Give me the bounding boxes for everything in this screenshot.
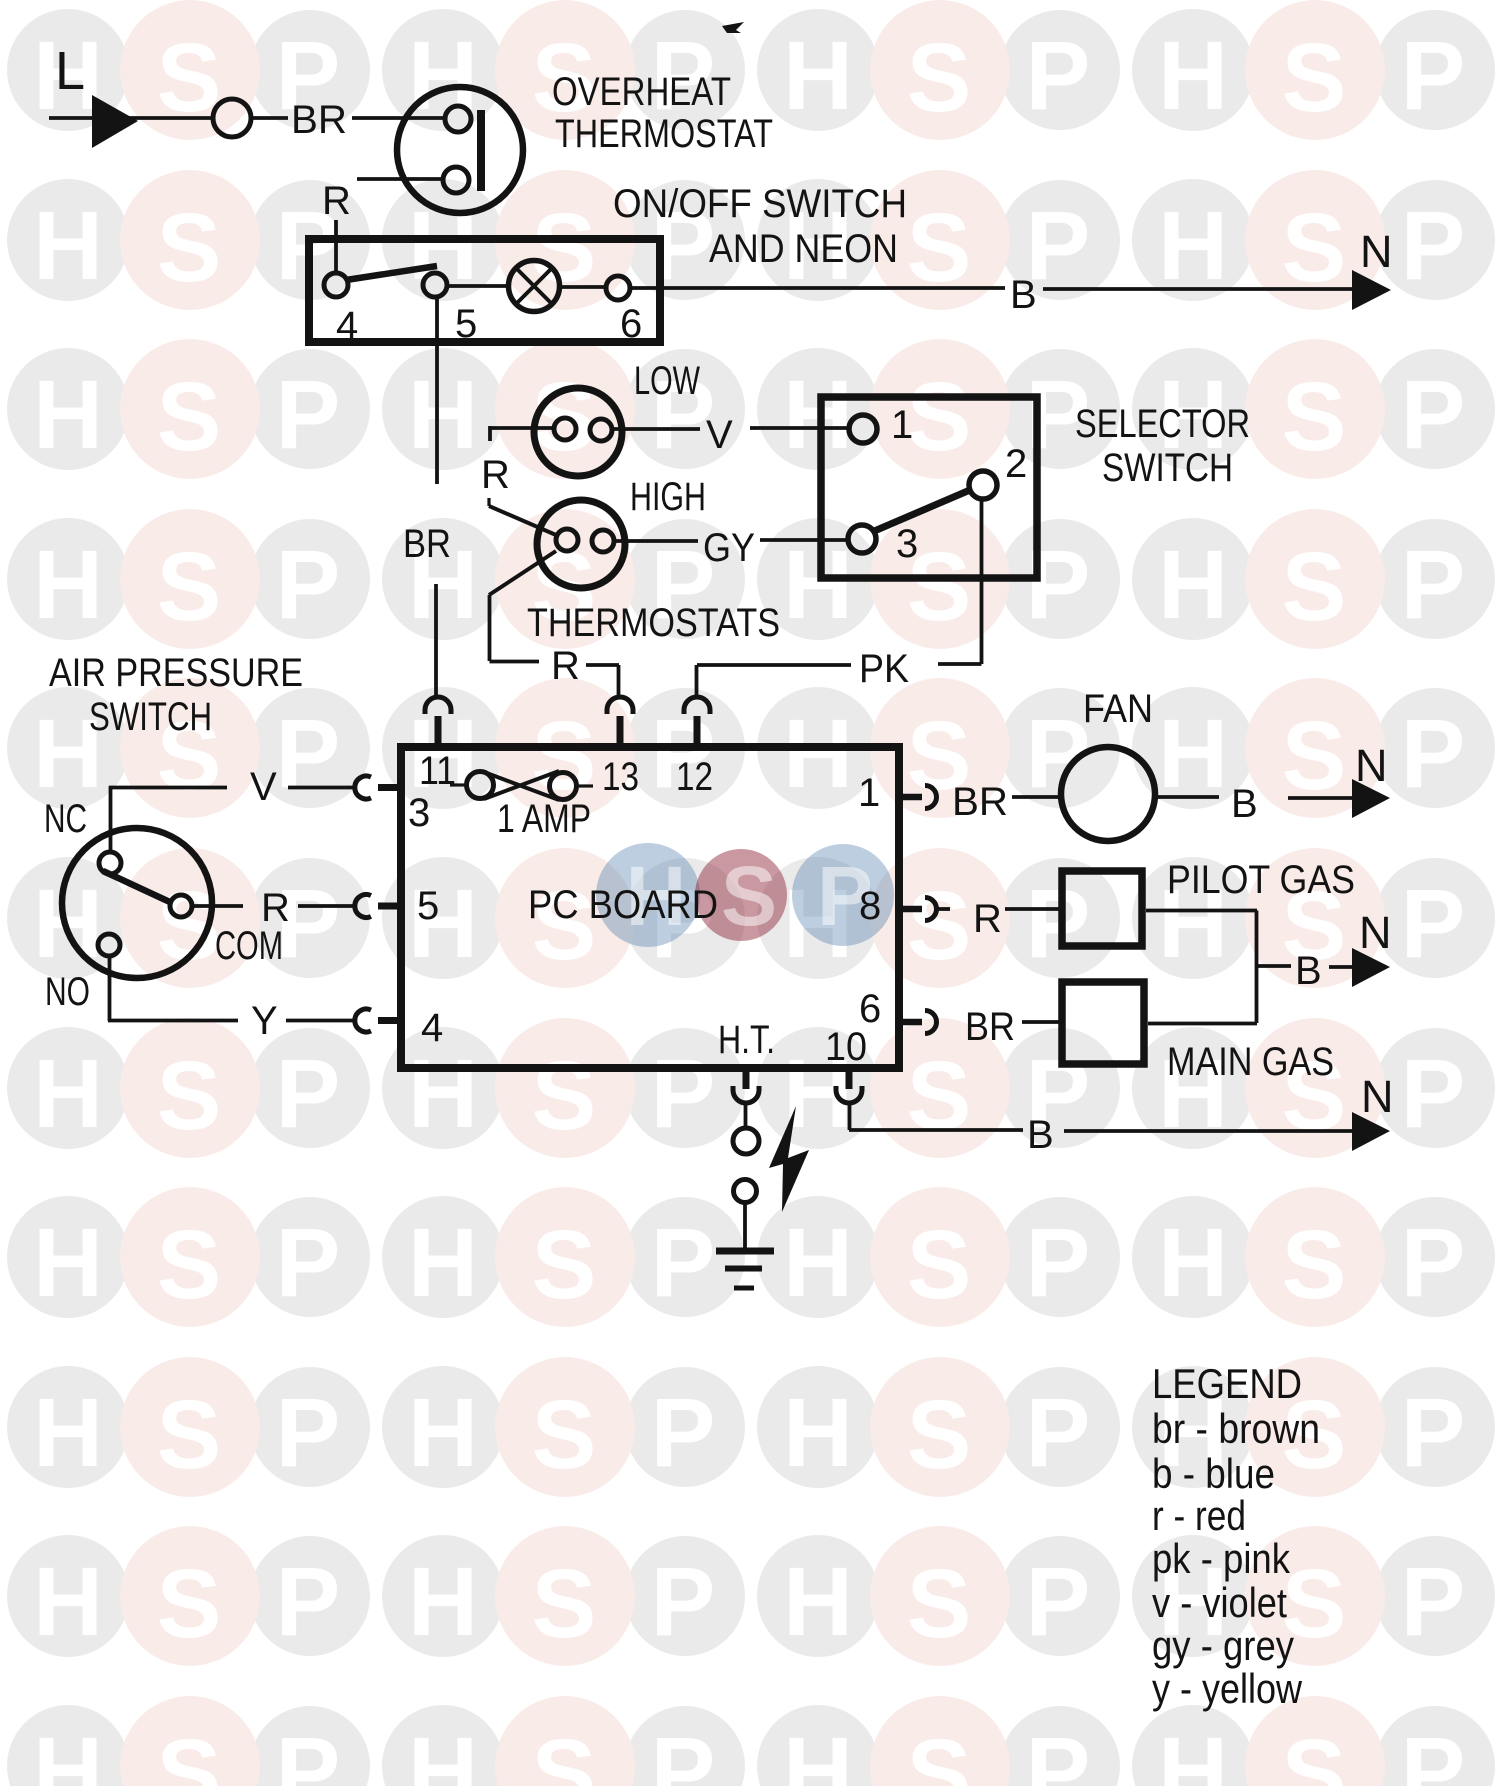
node L (mains live) <box>55 41 85 101</box>
thermostat LOW body <box>534 388 622 476</box>
legend y - yellow <box>1152 1665 1303 1712</box>
legend pk - pink <box>1152 1535 1291 1582</box>
wire fan to B label <box>1156 795 1219 799</box>
switch terminal 5 <box>423 273 477 346</box>
label B (blue gas) <box>1295 949 1322 993</box>
connector terminal 1 output <box>900 786 937 809</box>
selector lever 3-2 <box>872 490 970 532</box>
label V (violet wire) <box>706 413 733 457</box>
label NO <box>45 970 90 1014</box>
label NC <box>44 797 87 841</box>
selector terminal 3 <box>848 522 918 566</box>
wire circle to BR label <box>251 116 288 120</box>
svg-text:4: 4 <box>336 304 358 348</box>
ground symbol <box>716 1251 774 1288</box>
on/off switch box <box>309 239 660 342</box>
spark lightning symbol <box>769 1106 809 1212</box>
wire NO down to Y line <box>108 956 112 1021</box>
wire COM to R label <box>193 904 243 908</box>
svg-text:R: R <box>322 179 351 223</box>
wire BR terminal 5 down (upper) <box>435 298 439 484</box>
label B (blue from fan) <box>1231 782 1258 826</box>
wire B to N arrow (fan) <box>1288 796 1352 800</box>
svg-text:GY: GY <box>703 526 755 570</box>
air pressure switch pin NO <box>98 934 120 956</box>
wire pilot valve to junction <box>1146 911 1257 1024</box>
svg-text:1 AMP: 1 AMP <box>497 797 591 841</box>
pin label 11 <box>419 749 456 793</box>
wire R continues <box>298 904 357 908</box>
label Y (yellow wire) <box>251 999 278 1043</box>
svg-text:2: 2 <box>1005 442 1027 486</box>
label SELECTOR SWITCH <box>1075 402 1250 490</box>
label OVERHEAT THERMOSTAT <box>552 70 773 156</box>
svg-text:B: B <box>1010 273 1037 317</box>
label HIGH <box>630 475 706 519</box>
pin label 8 <box>859 884 881 928</box>
svg-text:PK: PK <box>859 647 909 691</box>
label GY (grey wire) <box>703 526 755 570</box>
connector terminal 6 output <box>900 1011 937 1034</box>
svg-text:4: 4 <box>421 1006 443 1050</box>
svg-text:LEGEND: LEGEND <box>1152 1360 1302 1407</box>
label H.T. <box>718 1018 775 1062</box>
svg-text:gy - grey: gy - grey <box>1152 1622 1294 1669</box>
pin label 12 <box>676 755 713 799</box>
svg-text:3: 3 <box>408 791 430 835</box>
overheat thermostat pin top <box>445 106 471 132</box>
svg-text:Y: Y <box>251 999 278 1043</box>
connector C terminal 3 <box>355 776 400 799</box>
pilot gas valve <box>1062 871 1142 946</box>
label PILOT GAS <box>1167 858 1355 902</box>
svg-text:12: 12 <box>676 755 713 799</box>
label R (red wire to overheat) <box>322 179 351 223</box>
label BR (brown wire) <box>291 98 347 142</box>
label MAIN GAS <box>1167 1040 1334 1084</box>
label PK (pink wire) <box>859 647 909 691</box>
wire R to overheat bottom pin <box>357 177 443 181</box>
switch lever 4-5 <box>346 266 437 280</box>
wire BR down to board terminal 11 <box>434 584 438 699</box>
wire B to N arrow <box>1043 287 1352 291</box>
air pressure switch pin COM <box>170 895 192 917</box>
wire main valve to junction <box>1148 1022 1257 1026</box>
svg-text:N: N <box>1360 226 1393 277</box>
svg-text:v - violet: v - violet <box>1152 1579 1287 1626</box>
label PC BOARD <box>528 883 718 927</box>
arrow N bottom <box>1352 1112 1390 1151</box>
svg-text:V: V <box>250 765 277 809</box>
overheat thermostat body <box>397 87 523 213</box>
svg-text:NC: NC <box>44 797 87 841</box>
thermostat LOW pin right <box>590 419 612 441</box>
svg-text:THERMOSTAT: THERMOSTAT <box>555 112 773 156</box>
node N (bottom) <box>1361 1071 1394 1122</box>
wire PK selector 2 down <box>938 499 982 664</box>
air pressure switch pin NC <box>99 852 121 874</box>
wire V to selector terminal 1 <box>750 426 849 430</box>
svg-text:6: 6 <box>620 302 642 346</box>
thermostat HIGH body <box>537 500 625 588</box>
svg-text:pk - pink: pk - pink <box>1152 1535 1291 1582</box>
pin label 10 <box>825 1025 867 1069</box>
node N (gas) <box>1359 907 1392 958</box>
connector hook terminal H.T. <box>733 1068 759 1103</box>
fan motor M1 <box>1061 747 1155 841</box>
label R (red to board 5) <box>261 886 290 930</box>
switch terminal 4 <box>324 273 358 348</box>
label BR (brown wire mid) <box>403 522 451 566</box>
svg-text:LOW: LOW <box>634 359 700 403</box>
overheat thermostat contact bar <box>477 110 485 191</box>
svg-text:HIGH: HIGH <box>630 475 706 519</box>
svg-text:B: B <box>1295 949 1322 993</box>
svg-text:S: S <box>721 849 777 943</box>
wire neon to terminal 6 <box>559 285 606 289</box>
overheat thermostat pin bottom <box>443 167 469 193</box>
wire V continues <box>288 786 357 790</box>
wire R to HIGH left pin <box>489 498 556 535</box>
svg-text:SWITCH: SWITCH <box>1102 446 1233 490</box>
pin label 1 <box>858 771 880 815</box>
label AIR PRESSURE SWITCH <box>49 651 303 739</box>
scan mark top centre <box>722 22 744 33</box>
pin label 13 <box>602 755 639 799</box>
svg-text:ON/OFF SWITCH: ON/OFF SWITCH <box>613 182 907 226</box>
wire into LOW left pin <box>490 426 554 441</box>
svg-text:R: R <box>481 453 510 497</box>
svg-text:V: V <box>706 413 733 457</box>
PC board box U1 <box>401 747 899 1068</box>
connector hook terminal 10 <box>836 1068 862 1103</box>
wire junction to B (gas) <box>1256 964 1291 968</box>
wire R from HIGH pin down to board terminal 13 <box>489 551 556 662</box>
legend br - brown <box>1152 1405 1320 1452</box>
node N (fan) <box>1355 740 1388 791</box>
connector hook terminal 12 <box>684 697 710 746</box>
svg-text:B: B <box>1027 1113 1054 1157</box>
legend v - violet <box>1152 1579 1287 1626</box>
svg-text:OVERHEAT: OVERHEAT <box>552 70 731 114</box>
wire R to pilot valve <box>1005 907 1060 911</box>
svg-text:N: N <box>1355 740 1388 791</box>
svg-text:N: N <box>1359 907 1392 958</box>
connector C terminal 5 <box>355 895 400 918</box>
neon lamp <box>509 261 560 312</box>
connector circle on L wire <box>213 99 251 137</box>
wire Y to board terminal 4 <box>108 1019 238 1023</box>
thermostat HIGH pin right <box>592 530 614 552</box>
wire BR to fan <box>1012 795 1060 799</box>
air pressure switch lever NC-COM <box>103 871 172 903</box>
wire Y continues <box>286 1019 357 1023</box>
connector hook terminal 13 <box>607 697 633 746</box>
pin label 5 <box>417 884 439 928</box>
svg-text:SELECTOR: SELECTOR <box>1075 402 1250 446</box>
label B (blue wire top) <box>1010 273 1037 317</box>
wire PK to board terminal 12 <box>697 665 852 697</box>
wire R down to switch terminal 4 <box>334 220 338 272</box>
wire 5 to neon lamp <box>447 284 509 288</box>
wire electrode to ground <box>743 1203 747 1248</box>
thermostat HIGH pin left <box>556 529 578 551</box>
thermostat LOW pin left <box>554 418 576 440</box>
svg-text:FAN: FAN <box>1083 687 1153 731</box>
legend b - blue <box>1152 1450 1275 1497</box>
node N (top right) <box>1360 226 1393 277</box>
connector terminal 8 output <box>900 898 950 921</box>
svg-text:PILOT GAS: PILOT GAS <box>1167 858 1355 902</box>
wire B to N arrow (bottom) <box>1064 1129 1352 1133</box>
label R (red to pilot valve) <box>973 897 1002 941</box>
legend gy - grey <box>1152 1622 1294 1669</box>
label V (violet to board) <box>250 765 277 809</box>
wire B neutral from switch <box>630 286 1005 290</box>
arrow L input <box>92 95 138 148</box>
svg-text:N: N <box>1361 1071 1394 1122</box>
label FAN <box>1083 687 1153 731</box>
svg-text:10: 10 <box>825 1025 867 1069</box>
svg-text:y - yellow: y - yellow <box>1152 1665 1303 1712</box>
svg-text:MAIN GAS: MAIN GAS <box>1167 1040 1334 1084</box>
svg-text:b - blue: b - blue <box>1152 1450 1275 1497</box>
svg-text:BR: BR <box>965 1005 1015 1049</box>
svg-text:THERMOSTATS: THERMOSTATS <box>527 601 780 645</box>
label LOW <box>634 359 700 403</box>
svg-text:R: R <box>261 886 290 930</box>
svg-text:13: 13 <box>602 755 639 799</box>
wire B to N arrow (gas) <box>1329 965 1352 969</box>
pin label 6 <box>859 987 881 1031</box>
wire L input <box>49 116 213 120</box>
svg-text:AIR PRESSURE: AIR PRESSURE <box>49 651 303 695</box>
selector terminal 1 <box>849 403 913 447</box>
wire R corner into terminal 13 <box>586 665 619 697</box>
svg-text:5: 5 <box>417 884 439 928</box>
svg-text:L: L <box>55 41 85 101</box>
label R (red to terminal 13) <box>551 644 580 688</box>
svg-text:3: 3 <box>896 522 918 566</box>
svg-text:H.T.: H.T. <box>718 1018 775 1062</box>
fuse F1 1 AMP <box>450 771 593 800</box>
svg-text:BR: BR <box>291 98 347 142</box>
label BR (brown to fan) <box>952 780 1008 824</box>
label BR (brown to main valve) <box>965 1005 1015 1049</box>
label THERMOSTATS <box>527 601 780 645</box>
switch terminal 6 <box>606 276 642 346</box>
wire BR to overheat thermostat <box>352 116 446 120</box>
pin label 3 <box>408 791 430 835</box>
legend title <box>1152 1360 1302 1407</box>
wire BR to main valve <box>1022 1020 1060 1024</box>
svg-text:NO: NO <box>45 970 90 1014</box>
pin label 4 <box>421 1006 443 1050</box>
wire NC up to V line <box>109 786 113 852</box>
air pressure switch body <box>62 828 212 978</box>
label R (red link) <box>481 453 510 497</box>
connector hook terminal 11 <box>425 697 451 746</box>
label B (blue bottom) <box>1027 1113 1054 1157</box>
svg-text:br - brown: br - brown <box>1152 1405 1320 1452</box>
arrow N top right <box>1352 270 1391 310</box>
connector C terminal 4 <box>355 1009 400 1032</box>
label COM <box>215 924 283 968</box>
svg-text:B: B <box>1231 782 1258 826</box>
legend r - red <box>1152 1492 1246 1539</box>
main gas valve <box>1062 982 1144 1064</box>
wire V to board terminal 3 <box>109 786 227 790</box>
svg-text:R: R <box>551 644 580 688</box>
wire HIGH right pin to GY label <box>615 539 698 543</box>
wire LOW right pin to V label <box>612 427 700 431</box>
label ON/OFF SWITCH AND NEON <box>613 182 907 271</box>
svg-text:AND NEON: AND NEON <box>709 227 898 271</box>
svg-text:BR: BR <box>403 522 451 566</box>
spark electrode circle lower <box>734 1180 757 1203</box>
svg-text:BR: BR <box>952 780 1008 824</box>
svg-text:R: R <box>973 897 1002 941</box>
arrow N gas <box>1352 948 1390 987</box>
spark electrode circle upper <box>733 1128 759 1154</box>
wire terminal 10 down <box>848 1104 852 1130</box>
arrow N fan <box>1352 779 1390 818</box>
wire H.T. lead <box>744 1104 748 1128</box>
svg-text:1: 1 <box>858 771 880 815</box>
svg-text:5: 5 <box>455 302 477 346</box>
selector terminal 2 <box>969 442 1027 499</box>
svg-text:1: 1 <box>891 403 913 447</box>
svg-text:COM: COM <box>215 924 283 968</box>
wire 10 to B label (bottom) <box>849 1128 1023 1132</box>
selector switch box <box>821 397 1037 578</box>
svg-text:r - red: r - red <box>1152 1492 1246 1539</box>
label 1 AMP <box>497 797 591 841</box>
svg-text:PC BOARD: PC BOARD <box>528 883 718 927</box>
svg-text:SWITCH: SWITCH <box>89 695 212 739</box>
wire GY to selector terminal 3 <box>760 538 849 542</box>
svg-text:8: 8 <box>859 884 881 928</box>
